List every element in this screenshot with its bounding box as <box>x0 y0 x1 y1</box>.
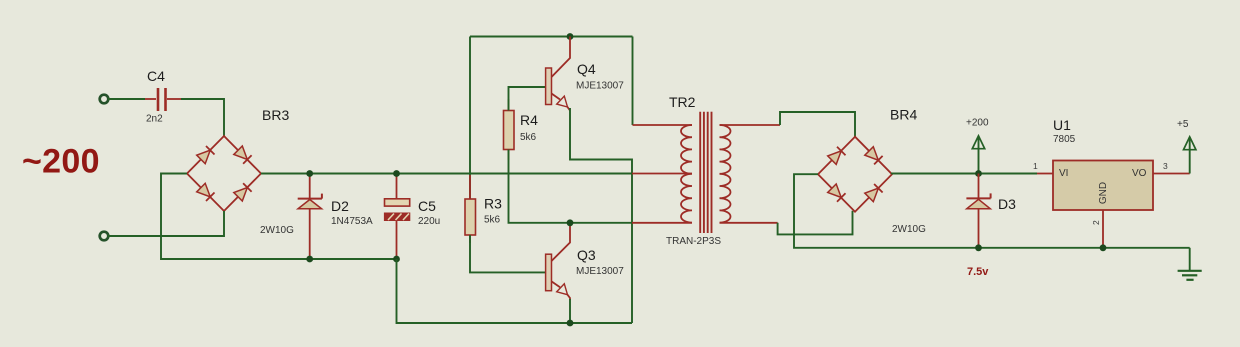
svg-text:Q4: Q4 <box>577 61 596 77</box>
resistor R3 <box>469 175 471 199</box>
svg-text:5k6: 5k6 <box>484 215 501 226</box>
svg-text:+5: +5 <box>1177 119 1189 130</box>
svg-text:2W10G: 2W10G <box>260 225 294 236</box>
wire terminal1 to C4 <box>108 98 145 100</box>
power flag +5 <box>1184 137 1196 174</box>
node dot U1 gnd <box>1100 244 1107 251</box>
TR2 core <box>699 112 701 233</box>
BR3 diode bottom-left <box>197 183 211 197</box>
TR2 left tap top <box>633 124 693 126</box>
TR2 right tap top <box>720 124 781 126</box>
BR4 diode top-right <box>865 147 879 161</box>
svg-text:MJE13007: MJE13007 <box>576 81 624 92</box>
svg-text:C4: C4 <box>147 68 165 84</box>
node dot Q4 collector <box>567 33 574 40</box>
svg-text:~200: ~200 <box>22 143 100 181</box>
node dot D3 top <box>975 170 982 177</box>
svg-text:7805: 7805 <box>1053 134 1076 145</box>
svg-text:1: 1 <box>1033 161 1038 171</box>
wire TR2 right bottom to BR4 bottom <box>778 211 853 235</box>
BR3 diode top-right <box>234 146 248 160</box>
svg-text:U1: U1 <box>1053 117 1071 133</box>
TR2 right winding <box>720 125 731 223</box>
power flag +200 <box>972 136 984 174</box>
svg-text:BR3: BR3 <box>262 107 289 123</box>
TR2 left tap center <box>632 173 692 175</box>
pin 2 stub <box>1102 211 1104 248</box>
wire C4 to BR3 top <box>181 99 224 136</box>
BR4 diamond frame <box>818 137 892 212</box>
terminal P1 top <box>100 95 109 104</box>
wire top rail to TR2 top tap <box>632 37 634 126</box>
zener D3 <box>966 174 990 248</box>
BR4 diode top-left <box>828 151 842 165</box>
terminal P2 bottom <box>100 232 109 241</box>
svg-text:3: 3 <box>1163 161 1168 171</box>
wire top rail Q4 collector net <box>470 36 633 38</box>
TR2 left winding <box>681 125 692 223</box>
wire terminal2 to BR3 bottom <box>108 211 224 236</box>
node dot Q3 collector <box>567 219 574 226</box>
svg-text:D3: D3 <box>998 196 1016 212</box>
svg-text:VO: VO <box>1132 168 1147 179</box>
node dot C5 bottom <box>393 256 400 263</box>
wire BR4 left vertex to ground rail <box>794 174 1190 248</box>
svg-text:7.5v: 7.5v <box>967 266 989 278</box>
svg-text:VI: VI <box>1059 168 1068 179</box>
wire C5 bottom to lower rail <box>397 259 633 323</box>
svg-text:1N4753A: 1N4753A <box>331 216 373 227</box>
svg-text:+200: +200 <box>966 118 989 129</box>
svg-text:5k6: 5k6 <box>520 132 537 143</box>
bridge BR3 <box>187 136 261 211</box>
zener D2 <box>298 174 322 260</box>
resistor R4 <box>508 99 510 111</box>
TR2 right tap bottom <box>720 222 778 224</box>
wire R4 bottom to Q3 collector line <box>509 150 633 223</box>
svg-text:BR4: BR4 <box>890 107 917 123</box>
node dot Q3 emitter <box>567 320 574 327</box>
bridge BR4 <box>818 137 892 212</box>
svg-text:MJE13007: MJE13007 <box>576 266 624 277</box>
BR3 diode bottom-right <box>234 188 248 202</box>
wire BR3 left vertex to minus rail <box>161 174 397 260</box>
svg-text:220u: 220u <box>418 216 440 227</box>
regulator U1 7805 <box>1053 161 1153 211</box>
svg-text:R3: R3 <box>484 196 502 212</box>
svg-text:Q3: Q3 <box>577 247 596 263</box>
wire BR4 right vertex to U1 VI <box>892 173 1037 176</box>
wire Q3 emitter to lower rail <box>569 299 571 323</box>
BR3 diode top-left <box>197 150 211 164</box>
node dot D3 bottom <box>975 244 982 251</box>
svg-text:TRAN-2P3S: TRAN-2P3S <box>666 236 721 247</box>
transistor Q4 <box>546 37 570 111</box>
transformer TR2 <box>632 112 780 233</box>
wire plus rail BR3 right to transformer center tap <box>261 173 632 175</box>
wire R3 bottom to Q3 base <box>470 235 545 272</box>
BR4 diode bottom-left <box>828 184 842 198</box>
TR2 left tap bottom <box>632 222 692 224</box>
ground symbol <box>1178 248 1202 280</box>
node dot C5 top <box>393 170 400 177</box>
capacitor C4 <box>145 88 181 111</box>
svg-text:GND: GND <box>1098 182 1109 204</box>
node dot D2 top <box>306 170 313 177</box>
capacitor C5 electrolytic <box>385 174 410 260</box>
svg-text:TR2: TR2 <box>669 94 696 110</box>
BR4 diode bottom-right <box>865 188 879 202</box>
pin 1 stub <box>1037 173 1053 175</box>
pin 3 stub <box>1153 173 1190 175</box>
wire Q4 emitter to TR2 center tap <box>570 108 632 323</box>
wire TR2 right top to BR4 top <box>780 112 855 137</box>
svg-text:D2: D2 <box>331 198 349 214</box>
svg-text:C5: C5 <box>418 198 436 214</box>
wire top rail down to R3 <box>469 37 471 200</box>
BR3 diamond frame <box>187 136 261 211</box>
svg-text:2W10G: 2W10G <box>892 224 926 235</box>
svg-text:2n2: 2n2 <box>146 114 163 125</box>
svg-text:2: 2 <box>1091 220 1101 225</box>
transistor Q3 <box>546 223 570 300</box>
svg-text:R4: R4 <box>520 112 538 128</box>
node dot D2 bottom <box>306 256 313 263</box>
wire Q4 base to R4 top <box>509 87 546 111</box>
